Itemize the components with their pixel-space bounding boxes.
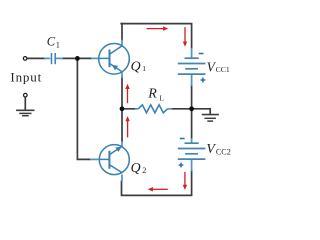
svg-text:L: L: [160, 95, 164, 103]
svg-text:1: 1: [56, 41, 60, 50]
svg-text:C: C: [47, 35, 56, 49]
svg-text:CC1: CC1: [216, 65, 230, 74]
svg-text:Q: Q: [131, 59, 141, 74]
svg-text:1: 1: [142, 64, 146, 73]
svg-text:Input: Input: [10, 70, 42, 85]
svg-text:2: 2: [142, 166, 146, 175]
svg-text:CC2: CC2: [216, 147, 231, 156]
svg-text:V: V: [206, 141, 216, 156]
svg-text:R: R: [147, 87, 157, 102]
svg-text:Q: Q: [131, 160, 141, 175]
